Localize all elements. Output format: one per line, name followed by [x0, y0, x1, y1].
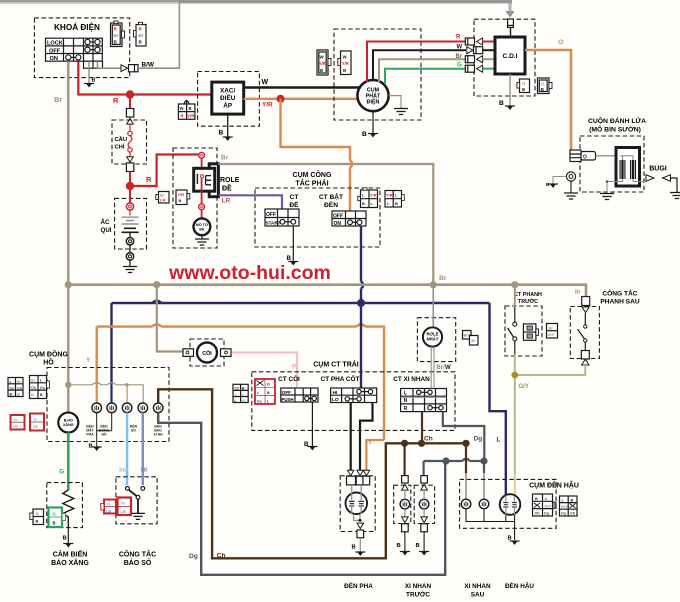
wire LR purple from relay to starter switch [218, 195, 282, 209]
node Br bus front brake feed [511, 281, 518, 288]
svg-text:O: O [267, 383, 270, 387]
svg-text:LO: LO [332, 397, 339, 403]
fuel sensor resistor [63, 490, 74, 528]
node red fuse/battery/starter junction [126, 182, 134, 190]
gear switch CONG TAC BAO SO dashed box [116, 477, 157, 524]
wire navy from light switch down to bus [361, 226, 363, 303]
ignition switch contact table [46, 38, 103, 68]
svg-text:LB: LB [106, 510, 111, 514]
svg-text:Dg: Dg [474, 436, 483, 443]
bulb labels [86, 424, 163, 437]
svg-text:B: B [92, 78, 96, 84]
svg-text:CHÌ: CHÌ [115, 143, 125, 151]
svg-text:B: B [397, 543, 401, 549]
wire B ground of generator [362, 111, 378, 138]
svg-text:O: O [583, 155, 587, 161]
regulator body [212, 82, 244, 114]
Ch bus nodes [401, 440, 408, 447]
wire Br generator to CDI [379, 59, 466, 82]
svg-text:OFF: OFF [333, 213, 343, 219]
svg-text:CÔNG TẮC: CÔNG TẮC [119, 550, 156, 559]
orange bus Y horizontal [86, 324, 384, 440]
wire red to starter relay [130, 155, 200, 187]
connector red Sb/LB 1 [101, 500, 116, 514]
connector horn left [183, 349, 194, 357]
svg-text:G: G [457, 63, 462, 69]
front brake switch contacts [508, 285, 517, 375]
svg-text:www.oto-hui.com: www.oto-hui.com [168, 262, 331, 284]
svg-text:LOCK: LOCK [47, 41, 63, 47]
svg-text:Br: Br [221, 155, 229, 162]
svg-text:XI NHAN: XI NHAN [405, 583, 432, 590]
svg-text:ON: ON [334, 221, 342, 227]
svg-text:LB: LB [141, 468, 148, 474]
svg-text:G: G [53, 512, 56, 517]
svg-text:Y/R: Y/R [386, 193, 393, 198]
connector icons left of cluster row2 [30, 376, 50, 399]
svg-text:B: B [541, 87, 544, 92]
wire Ch loop from turn indicator lamp [158, 389, 466, 559]
connector small G/B [30, 509, 44, 525]
wire label Dg near rear [474, 436, 483, 443]
svg-text:ĐÈN HẬU: ĐÈN HẬU [505, 581, 534, 590]
svg-text:TRƯỚC: TRƯỚC [406, 590, 430, 599]
wire Br/W double grey from flasher to turn switch [431, 347, 451, 389]
svg-text:B: B [362, 131, 367, 138]
starter motor MO TO DE [194, 218, 211, 238]
svg-text:W: W [445, 365, 451, 371]
wire Br from ignition switch down (brown vertical) [54, 61, 68, 414]
left switch cluster CUM CT TRAI dashed box [252, 360, 455, 431]
svg-text:PUSH: PUSH [281, 397, 293, 402]
ground battery [123, 267, 137, 273]
connector W into CDI [467, 47, 495, 54]
svg-text:Y/R: Y/R [319, 61, 326, 66]
svg-text:CẦU: CẦU [115, 136, 128, 143]
svg-text:CT BẬT: CT BẬT [319, 192, 343, 201]
svg-text:Br: Br [472, 339, 477, 343]
spark plug BUGI [646, 166, 680, 199]
connector R/Br/B inside ignition box [111, 21, 125, 47]
svg-text:B: B [36, 519, 39, 524]
svg-text:B: B [416, 543, 420, 549]
svg-text:PHÁT: PHÁT [366, 93, 381, 100]
wire R generator to CDI [367, 42, 466, 83]
dimmer switch CT PHA COT [321, 373, 377, 403]
ignition switch module KHOA DIEN dashed box [34, 18, 129, 78]
Dg bus [424, 459, 484, 476]
svg-text:Br: Br [456, 54, 463, 60]
wire Ch from turn switch down [421, 412, 423, 444]
svg-text:G: G [59, 469, 64, 476]
svg-text:W: W [457, 45, 463, 51]
svg-text:HI: HI [333, 390, 338, 396]
svg-text:CUỘN ĐÁNH LỬA: CUỘN ĐÁNH LỬA [588, 116, 646, 125]
svg-text:B: B [352, 545, 356, 551]
node Br bus at ignition column [65, 281, 72, 288]
wire B small ground from switch table [84, 61, 96, 87]
connector rear cluster 1 [533, 494, 557, 516]
svg-text:OFF: OFF [266, 212, 276, 218]
connector icon left of horn switch [233, 384, 248, 403]
svg-text:Br: Br [31, 379, 36, 383]
svg-text:G/Y: G/Y [548, 332, 555, 337]
svg-text:ROLE: ROLE [220, 177, 240, 184]
svg-text:Br: Br [17, 380, 22, 384]
svg-text:Ch: Ch [235, 387, 240, 391]
headlight DEN PHA dashed box [340, 476, 375, 532]
svg-text:OFF: OFF [282, 390, 291, 395]
svg-text:B: B [522, 87, 525, 92]
wire grey from Br bus to flasher [432, 285, 434, 328]
connector horn right [221, 349, 232, 357]
wire B ground of regulator [219, 114, 233, 141]
wire labels R W Br G at CDI [456, 35, 463, 69]
svg-text:XĂNG: XĂNG [63, 422, 74, 427]
svg-text:C.D.I: C.D.I [502, 53, 517, 60]
connector Y/R B near relay [176, 190, 190, 205]
svg-text:Ch: Ch [570, 512, 576, 516]
flasher relay body [423, 327, 442, 346]
connector Y/R L pair 2 [385, 191, 404, 208]
wire Sb from lamp down to gear switch [119, 413, 127, 485]
svg-text:Y/R: Y/R [342, 61, 349, 66]
horn body [197, 343, 217, 363]
headlight connectors and arrows [347, 470, 370, 485]
svg-text:Dg: Dg [40, 386, 45, 390]
wire B ground of horn switch [304, 402, 317, 451]
svg-text:G/Y: G/Y [545, 504, 552, 508]
svg-text:CT CÒI: CT CÒI [278, 374, 300, 383]
lamp DEN SO (Sb) [122, 403, 132, 413]
gear switch contacts [126, 487, 146, 520]
svg-text:B: B [219, 130, 224, 137]
right switch cluster CUM CONG TAC PHAI dashed box [255, 170, 380, 247]
svg-text:B: B [10, 393, 13, 397]
svg-text:B: B [63, 536, 67, 542]
wire navy into dimmer switch [360, 303, 362, 388]
svg-text:B: B [40, 393, 43, 397]
lamp DEN DONG HO [107, 403, 117, 413]
connector rear cluster 2 [560, 496, 578, 516]
svg-text:Ch: Ch [31, 386, 36, 390]
ignition coil CUON DANH LUA label [588, 116, 646, 134]
connector W/YR/B generator 1 [317, 50, 331, 75]
wire Ch down to front left signal [404, 443, 406, 475]
connector pair at front brake switch [523, 324, 557, 341]
flasher relay ROLE NHAY dashed box [417, 318, 455, 362]
wire Y/R orange from regulator [244, 99, 359, 109]
svg-text:XẠC/: XẠC/ [220, 88, 235, 95]
node Br bus flasher feed [430, 281, 437, 288]
svg-text:W: W [262, 79, 269, 86]
starter relay ROLE DE dashed box [173, 148, 240, 248]
svg-text:LB: LB [33, 425, 38, 429]
wire P pink from horn to horn switch [232, 353, 298, 389]
rear brake switch contacts [575, 290, 590, 366]
svg-text:ÁP: ÁP [223, 101, 233, 110]
node red bus to fuse junction [126, 90, 134, 98]
svg-text:OFF: OFF [49, 48, 61, 54]
svg-text:B: B [53, 521, 56, 526]
svg-text:ĐIỆN: ĐIỆN [367, 98, 380, 106]
svg-text:Ch: Ch [424, 436, 433, 443]
lamp DEN MAT PHA [92, 403, 102, 413]
svg-text:TRƯỚC: TRƯỚC [518, 297, 538, 305]
svg-text:N: N [404, 398, 408, 404]
svg-text:G: G [17, 393, 20, 397]
svg-text:BÁO XĂNG: BÁO XĂNG [51, 558, 89, 567]
navy bus horizontal [112, 301, 490, 384]
svg-text:PHANH SAU: PHANH SAU [600, 299, 639, 306]
svg-text:Sb: Sb [119, 468, 127, 474]
svg-text:ẮC: ẮC [101, 218, 110, 226]
thin tan bulb feed line [68, 383, 143, 403]
connector Br/LR near battery [156, 192, 169, 204]
wire orange from Y/R junction to light switch [281, 99, 353, 211]
svg-text:B.HỒ: B.HỒ [64, 418, 73, 423]
svg-text:LB: LB [13, 425, 18, 429]
connector red Sb/LB 2 [118, 498, 132, 516]
top window border bar [0, 0, 512, 2]
wire Dg down to rear right signal [483, 461, 485, 499]
fuel sensor caption [51, 549, 89, 568]
node navy bus light switch junction [357, 299, 365, 307]
fuse CAU CHI dashed box [112, 120, 147, 164]
rear brake switch CONG TAC PHANH SAU dashed box [570, 289, 640, 359]
svg-text:TẮC PHẢI: TẮC PHẢI [295, 179, 328, 188]
svg-text:SỐ: SỐ [131, 428, 136, 433]
fuel sensor CAM BIEN BAO XANG dashed box [47, 483, 83, 528]
regulator XAC/DIEU AP dashed box [198, 72, 260, 127]
connector Br into CDI [465, 56, 495, 63]
svg-text:Dg: Dg [189, 553, 198, 560]
svg-text:Y: Y [86, 357, 91, 364]
svg-text:L: L [497, 437, 501, 444]
svg-text:CỤM CT TRÁI: CỤM CT TRÁI [313, 360, 359, 369]
svg-text:Br: Br [575, 290, 581, 296]
connector O B pair 2 below CDI [538, 78, 553, 94]
svg-text:CT: CT [290, 194, 299, 201]
wire Ch down to rear left signal [465, 443, 467, 499]
svg-text:XI NHAN: XI NHAN [464, 583, 491, 590]
svg-text:B: B [189, 106, 192, 111]
instrument cluster CUM DONG HO dashed box [29, 349, 169, 442]
svg-text:MÔ TƠ: MÔ TƠ [196, 222, 209, 227]
headlight bulb [346, 485, 368, 556]
svg-text:Ch: Ch [535, 512, 541, 516]
connector W B / R Y/R near regulator [178, 100, 195, 119]
front turn signals XI NHAN TRUOC dashed box [394, 485, 435, 523]
svg-text:G/Y: G/Y [561, 505, 568, 509]
ground inside coil box [600, 180, 614, 199]
svg-text:LR: LR [222, 198, 231, 205]
turn signal switch CT XI NHAN [393, 376, 446, 412]
connector R into CDI [465, 38, 495, 45]
svg-text:Y/R: Y/R [262, 102, 273, 109]
svg-text:CÔNG TẮC: CÔNG TẮC [602, 289, 637, 298]
connector red icon 2 [30, 414, 44, 431]
svg-text:B: B [499, 100, 504, 107]
svg-text:LB: LB [121, 509, 126, 514]
wire G green from fuel gauge down to sensor [59, 433, 68, 491]
wire O orange from CDI to ignition coil [525, 39, 571, 150]
svg-text:PHA: PHA [86, 433, 94, 437]
generator body [357, 80, 388, 111]
CDI dashed box [474, 19, 535, 96]
starter switch CT DE [265, 194, 299, 226]
svg-text:R: R [146, 175, 152, 184]
wire Y orange jog into headlight [366, 440, 384, 471]
svg-text:BUGI: BUGI [649, 166, 667, 173]
fuel gauge B.HO XANG [58, 413, 78, 433]
node Br bus horn feed [153, 281, 160, 288]
rear light cluster CUM DEN HAU dashed box [460, 479, 579, 528]
svg-text:B: B [571, 499, 574, 503]
connector red icon 1 [11, 415, 25, 430]
svg-text:HỒ: HỒ [101, 432, 106, 437]
svg-text:B: B [362, 201, 365, 206]
wire G generator to CDI [385, 69, 466, 84]
svg-text:KHOÁ ĐIỆN: KHOÁ ĐIỆN [54, 21, 100, 32]
connector icon red-bordered near horn switch [255, 379, 275, 404]
connector O B pair 1 below CDI [517, 79, 530, 93]
svg-text:R: R [456, 35, 461, 41]
svg-text:Br: Br [439, 275, 447, 282]
svg-text:LR: LR [160, 198, 165, 203]
battery ACQUI dashed box [101, 198, 147, 249]
starter relay body [194, 152, 219, 218]
svg-text:ĐÈN: ĐÈN [324, 200, 338, 209]
CDI body [495, 37, 525, 74]
rear lamps ground bus [466, 509, 520, 545]
connector Br/W Br near flasher [463, 331, 479, 346]
wire black HI output to headlight [360, 403, 373, 471]
svg-text:B: B [320, 68, 323, 73]
connector R/Br/B outside ignition box [134, 22, 147, 46]
Dg bus nodes [442, 457, 449, 464]
battery cell symbol [122, 186, 139, 267]
generator CUM PHAT DIEN dashed box [334, 29, 421, 120]
node Br feed in cluster [65, 382, 71, 388]
wire B ground of cluster lamps [89, 413, 112, 451]
wire R from ignition switch to red bus [78, 61, 212, 105]
svg-text:Sb: Sb [13, 418, 18, 422]
wire ground right of generator [389, 96, 408, 115]
svg-text:Br/: Br/ [437, 365, 446, 371]
wire W black from regulator to generator [244, 79, 364, 88]
svg-text:B: B [395, 201, 398, 206]
svg-text:CÒI: CÒI [202, 349, 212, 357]
svg-text:Dg: Dg [561, 512, 567, 516]
front right turn signal [416, 476, 430, 556]
gear switch caption [119, 550, 156, 568]
svg-text:Br: Br [139, 33, 144, 38]
svg-text:L: L [404, 391, 407, 397]
ground starter motor [195, 239, 209, 245]
svg-text:Br: Br [549, 326, 554, 331]
svg-text:P: P [292, 364, 297, 371]
svg-text:Sb: Sb [121, 501, 127, 506]
svg-text:R: R [404, 406, 408, 412]
coil plug connector O [570, 150, 620, 162]
bottom captions [344, 581, 534, 599]
horn switch CT COI [278, 374, 318, 402]
node G/Y junction [511, 372, 518, 379]
svg-text:CT PHANH: CT PHANH [514, 292, 542, 298]
wire B ground of starter switch [287, 226, 299, 266]
connector L YR / B L pair 1 [358, 188, 378, 208]
svg-text:Ch: Ch [217, 553, 226, 560]
svg-text:Ch: Ch [17, 386, 22, 390]
svg-text:Sb: Sb [33, 418, 38, 422]
svg-text:Br: Br [54, 95, 62, 104]
lamp gear indicator (Lb) [138, 403, 148, 413]
light switch CT BAT DEN [319, 192, 366, 227]
wire navy L from bus down to tail light [490, 303, 506, 495]
front left turn signal [397, 476, 410, 556]
svg-text:G/Y: G/Y [519, 384, 529, 390]
wire black LO output to headlight [350, 403, 352, 471]
svg-text:CT XI NHAN: CT XI NHAN [393, 376, 430, 383]
svg-text:ĐỀ: ĐỀ [199, 226, 205, 231]
wire B/W from ignition switch to CDI (grey) [98, 2, 511, 72]
fuse element [126, 131, 133, 186]
svg-text:NHÁY: NHÁY [427, 337, 439, 342]
wire Br from relay to right (tan) [218, 155, 433, 285]
wire Lb from lamp down to gear switch [141, 413, 148, 485]
wire Br down to horn [157, 285, 184, 352]
svg-text:QUI: QUI [101, 227, 112, 234]
wire G/Y from rear brake to tail light [515, 365, 586, 496]
rear left turn signal [461, 499, 471, 509]
svg-text:B: B [535, 497, 538, 501]
svg-text:G: G [242, 399, 245, 403]
connector icons left of cluster row1 [8, 378, 23, 397]
connector green G/B [49, 508, 66, 528]
connector G into CDI [465, 65, 495, 72]
wire B ground of CDI [499, 74, 515, 110]
svg-text:CỤM CÔNG: CỤM CÔNG [293, 170, 332, 179]
svg-text:ĐÈN PHA: ĐÈN PHA [344, 581, 373, 590]
front brake switch CT PHANH TRUOC dashed box [505, 292, 542, 356]
rear right turn signal [479, 499, 489, 509]
connector W/YR/B generator 2 [338, 51, 351, 75]
svg-text:(MÔ BIN SƯỜN): (MÔ BIN SƯỜN) [589, 125, 641, 134]
svg-text:Dg: Dg [257, 399, 262, 403]
wire W generator to CDI [373, 50, 466, 80]
svg-text:START: START [266, 220, 281, 225]
horn COI dashed box [190, 339, 224, 366]
svg-text:G: G [31, 393, 34, 397]
ignition coil dashed box [580, 136, 644, 192]
svg-text:Y/R: Y/R [187, 114, 195, 119]
ignition coil body U [607, 148, 645, 187]
svg-text:B: B [179, 198, 182, 203]
svg-text:R: R [113, 96, 119, 105]
node Y/R junction [277, 95, 285, 103]
brown bus Br horizontal [68, 275, 586, 297]
svg-text:XI NH: XI NH [153, 433, 163, 437]
svg-text:Y/R: Y/R [178, 192, 185, 197]
svg-text:B: B [343, 68, 346, 73]
coil mounting grommet and B ground [546, 172, 578, 199]
lamp DEN BAO XI NHAN [153, 403, 163, 413]
svg-text:Sb: Sb [106, 503, 112, 507]
svg-text:Dg: Dg [544, 512, 550, 516]
svg-text:Br: Br [114, 33, 119, 38]
svg-text:Y/R: Y/R [370, 193, 377, 198]
